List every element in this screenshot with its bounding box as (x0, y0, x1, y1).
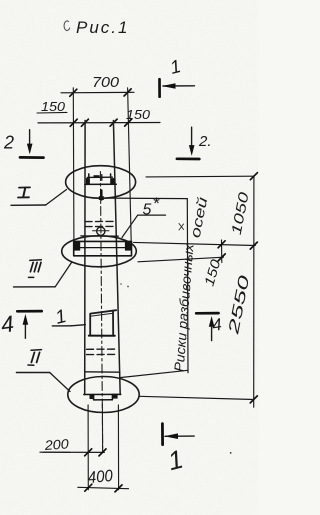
hole axis dash (93, 230, 110, 232)
section marker 4 right: bar (196, 312, 218, 315)
section marker 2 left: bar (20, 156, 44, 159)
tick right bottom (250, 396, 257, 403)
column top surface (85, 183, 117, 185)
riska mark top (100, 191, 103, 200)
section marker 4 left: bar (17, 310, 41, 313)
dashed joint lines upper (85, 220, 114, 222)
top plate line (87, 176, 112, 178)
column axis dash-dot (100, 172, 102, 453)
dim 150 vertical line (221, 240, 223, 263)
svg-text:Рис.1: Рис.1 (76, 18, 129, 37)
collar outline (74, 241, 132, 255)
top corner hook right (110, 178, 114, 184)
collar cap right (125, 241, 132, 250)
underline II leader (16, 372, 49, 374)
bottom plate left side (93, 395, 95, 400)
underline 150 left (37, 111, 67, 114)
column left edge (84, 121, 86, 395)
dashed joint lines lower (87, 348, 118, 350)
dimension 400 line (78, 487, 129, 488)
dimension 200 line (40, 451, 104, 453)
detail ellipse III (62, 236, 137, 267)
svg-text:400: 400 (87, 467, 114, 487)
svg-text:700: 700 (92, 75, 119, 91)
rect bottom (89, 335, 115, 337)
tick 400 a (85, 484, 92, 491)
collar inner line (74, 247, 131, 249)
tick 150v b (218, 254, 225, 261)
detail rect 1 (90, 310, 116, 335)
bottom extension right (117, 405, 119, 490)
tick 150v a (218, 241, 225, 248)
label II (28, 350, 42, 366)
rect top second line (90, 313, 113, 316)
detail ellipse II (68, 377, 139, 413)
tick right mid (250, 242, 257, 249)
underline 5* (138, 214, 166, 216)
specks (120, 283, 122, 285)
tick 150 d (125, 119, 132, 126)
tick 200 b (99, 449, 106, 456)
extension line collar bottom to dim (138, 257, 224, 262)
top corner hook left (86, 178, 90, 184)
section marker 4 left: arrow (24, 320, 26, 339)
label III (29, 260, 42, 278)
bottom extension left (87, 405, 89, 490)
section marker 2 left: arrow (29, 130, 31, 148)
bottom corner hook left (90, 394, 94, 399)
leader II (50, 373, 70, 392)
column bottom surface (84, 393, 121, 395)
dimension 700 line (61, 91, 134, 94)
bottom extension to right dim (139, 396, 254, 399)
leader 1 (71, 325, 85, 326)
leader from riska to text (92, 197, 187, 200)
underline 1 (52, 325, 71, 327)
joint line above collar (81, 235, 119, 237)
plate end tick left (88, 174, 90, 178)
hole circle (97, 227, 105, 235)
plate end tick right (110, 174, 112, 177)
detail ellipse I (66, 166, 136, 199)
svg-text:200: 200 (43, 436, 70, 453)
underline III leader (14, 286, 56, 288)
tick 150 c (110, 119, 117, 126)
tick 700 left (70, 89, 77, 96)
joint line above bottom detail (85, 371, 120, 373)
section marker 1 top: bar (158, 79, 161, 97)
riska extension line left (72, 88, 75, 242)
svg-text:150: 150 (126, 107, 151, 122)
top extension to right dim (146, 175, 254, 178)
collar cap left (74, 241, 81, 250)
dot near dim (230, 452, 232, 454)
tick 150 a (70, 119, 77, 126)
tick right top (250, 173, 257, 180)
underline 200 (43, 451, 70, 453)
bottom plate right side (111, 395, 113, 400)
riska extension line right (128, 88, 132, 242)
stray tick x (179, 224, 184, 231)
leader from ellipse II to text (121, 370, 188, 377)
dimension 150/150 line (38, 122, 160, 124)
tick 700 right (124, 89, 131, 96)
bottom extension axis (101, 404, 103, 453)
section marker 2 right: arrow (191, 127, 193, 148)
axis tick on plate (101, 175, 103, 181)
section marker 4 right: arrow (211, 322, 213, 341)
extension line collar top to dim (134, 242, 256, 245)
svg-text:5: 5 (143, 202, 152, 219)
right dim vertical line (253, 176, 255, 407)
leader III (55, 263, 71, 287)
svg-text:2.: 2. (198, 133, 212, 150)
label I (18, 187, 30, 197)
section marker 1 top: arrow (163, 85, 195, 87)
leader vertical along text (186, 199, 189, 373)
tick 400 b (115, 485, 122, 492)
top plate bump (94, 175, 100, 177)
svg-text:2: 2 (3, 133, 14, 153)
leader I (46, 190, 67, 206)
leader 5* (122, 215, 138, 237)
section marker 2 right: bar (177, 157, 199, 160)
column right edge (113, 121, 120, 395)
section marker 1 bottom: arrow (165, 435, 194, 437)
scribble near title (64, 21, 70, 31)
svg-text:150: 150 (41, 99, 66, 114)
underline I (11, 204, 46, 206)
section marker 1 bottom: bar (161, 424, 164, 445)
tick 200 a (85, 449, 92, 456)
tick 150 b (81, 119, 88, 126)
bottom corner hook right (112, 394, 117, 399)
bottom plate line (94, 399, 113, 401)
